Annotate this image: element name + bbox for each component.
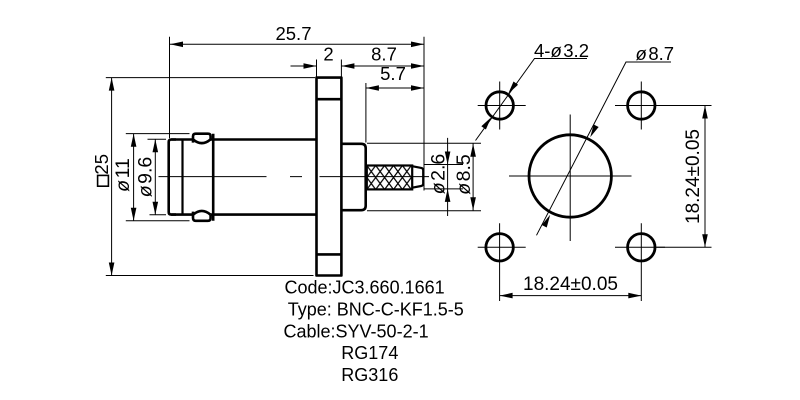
svg-text:Cable:SYV-50-2-1: Cable:SYV-50-2-1 [284, 321, 429, 341]
svg-text:18.24±0.05: 18.24±0.05 [523, 274, 618, 295]
svg-text:Type: BNC-C-KF1.5-5: Type: BNC-C-KF1.5-5 [288, 299, 464, 319]
svg-text:Code:JC3.660.1661: Code:JC3.660.1661 [285, 277, 445, 297]
svg-text:5.7: 5.7 [380, 63, 406, 84]
svg-text:25: 25 [91, 154, 112, 175]
svg-text:ø9.6: ø9.6 [135, 157, 157, 198]
svg-text:ø8.5: ø8.5 [453, 154, 475, 195]
svg-text:4-ø3.2: 4-ø3.2 [534, 40, 589, 61]
svg-text:8.7: 8.7 [371, 44, 397, 65]
svg-text:2: 2 [323, 44, 333, 65]
svg-text:ø11: ø11 [112, 158, 134, 192]
svg-text:18.24±0.05: 18.24±0.05 [683, 129, 704, 224]
svg-text:RG316: RG316 [341, 365, 398, 385]
svg-text:RG174: RG174 [341, 343, 398, 363]
svg-text:ø8.7: ø8.7 [636, 43, 675, 64]
svg-text:ø2.6: ø2.6 [428, 154, 450, 195]
svg-text:25.7: 25.7 [275, 23, 311, 44]
